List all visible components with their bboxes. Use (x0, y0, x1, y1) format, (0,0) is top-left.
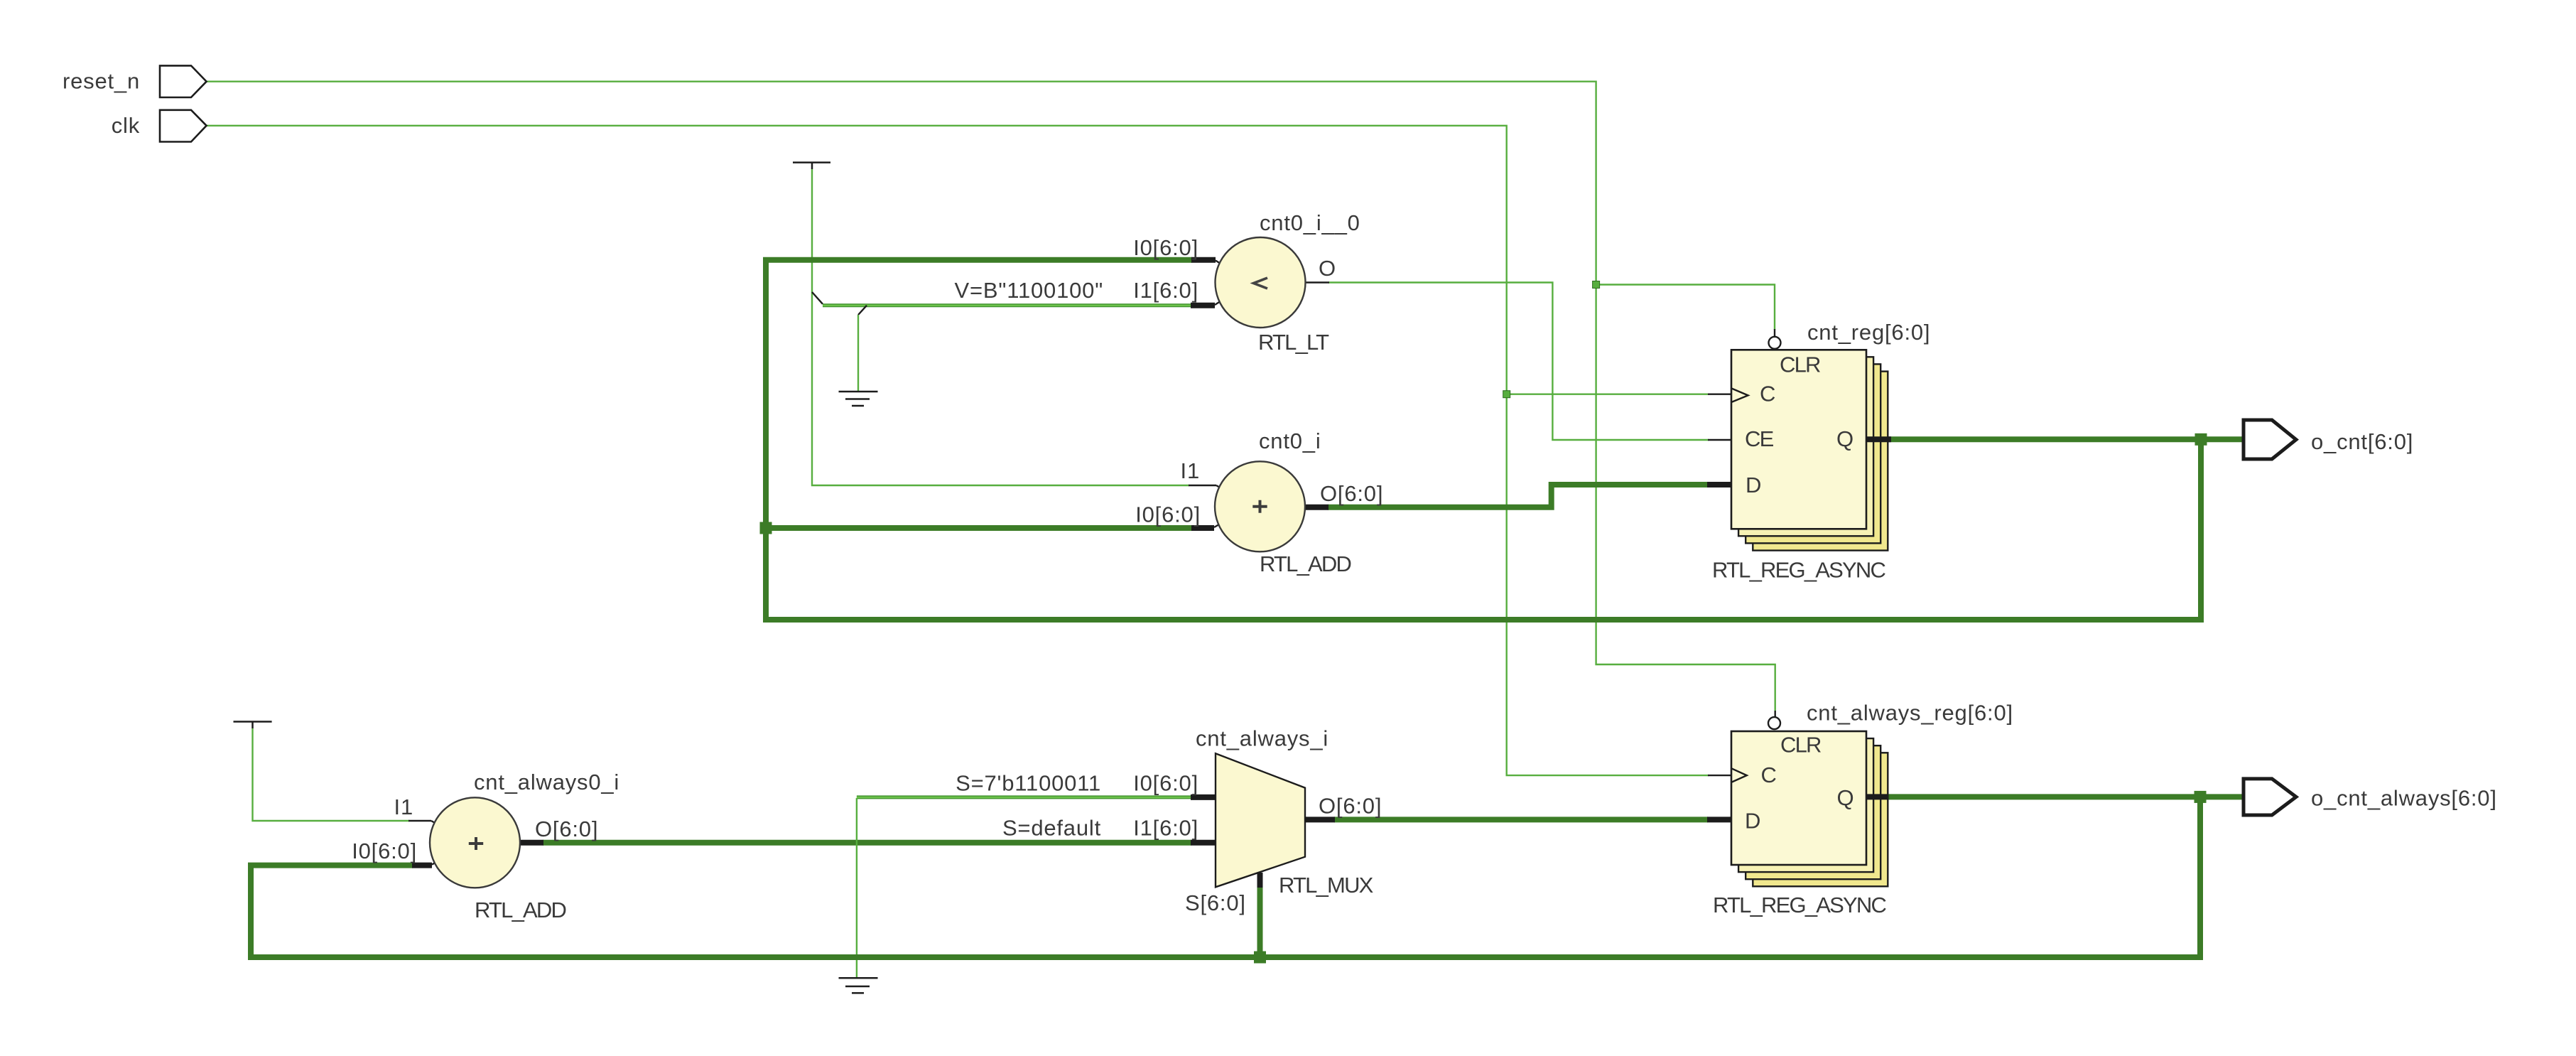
wire black pin stub over stack from cnt_always_reg Q (1866, 794, 1888, 799)
svg-text:cnt0_i: cnt0_i (1259, 429, 1321, 453)
wire cnt feedback thick net: Q to o_cnt and around to RTL_LT I0 (766, 260, 2201, 620)
wire diagonal tap to ground (858, 306, 867, 315)
svg-text:D: D (1746, 473, 1762, 497)
svg-text:Q: Q (1837, 785, 1855, 810)
svg-text:V=B"1100100": V=B"1100100" (955, 278, 1103, 303)
svg-text:cnt0_i__0: cnt0_i__0 (1260, 210, 1360, 235)
svg-text:I1: I1 (394, 794, 413, 819)
node reset junction (1593, 281, 1600, 289)
svg-text:O: O (1319, 256, 1336, 281)
wire black pin stub RTL_LT O (1306, 281, 1329, 283)
register RTL_REG_ASYNC cnt_reg[6:0] (1712, 320, 1930, 583)
svg-text:o_cnt[6:0]: o_cnt[6:0] (2311, 429, 2413, 454)
wire ground lead (857, 315, 859, 392)
wire RTL_LT output O to cnt_reg CE (1328, 283, 1709, 441)
svg-text:O[6:0]: O[6:0] (1319, 794, 1382, 819)
wire cnt0_i O to cnt_reg D (thick with jog) (1328, 485, 1708, 507)
wire black pin stub into cnt_reg CE (1708, 439, 1731, 441)
wire black pin stub into RTL_LT I0 (1191, 257, 1216, 263)
wire black pin stub from cnt0_i O (1305, 505, 1328, 510)
svg-text:O[6:0]: O[6:0] (1320, 481, 1383, 506)
node junction o_cnt_always (2195, 791, 2207, 803)
svg-text:D: D (1745, 809, 1761, 834)
node junction mux S on feedback (1254, 952, 1266, 964)
wire constant bus V=B"1100100" into RTL_LT I1 (hatched) (823, 303, 1191, 307)
wire black lead into cnt_reg CLR bubble (1774, 329, 1775, 336)
wire black pin stub from cnt_always_reg Q (1866, 794, 1888, 799)
wire Q output of cnt_reg to o_cnt port (1888, 436, 2244, 442)
power T-bar top (constant ones) (793, 163, 830, 169)
svg-text:CLR: CLR (1780, 352, 1820, 377)
wire black pin stub from cnt_reg Q (1866, 436, 1891, 442)
wire black pin stub into cnt_always_reg D (1707, 817, 1731, 822)
svg-text:RTL_ADD: RTL_ADD (475, 898, 566, 922)
wire black pin stub RTL_MUX S (1257, 873, 1263, 888)
svg-text:I1[6:0]: I1[6:0] (1133, 278, 1198, 303)
wire black pin stub into RTL_LT I1 (1191, 303, 1215, 308)
wire black pin stub into cnt_always0_i I1 (408, 820, 431, 821)
svg-text:cnt_always_i: cnt_always_i (1196, 726, 1328, 751)
svg-text:I1: I1 (1181, 458, 1200, 483)
svg-text:O[6:0]: O[6:0] (535, 817, 598, 841)
wire black pin stub over stack from cnt_reg Q (1866, 436, 1888, 442)
wire black pin stub into RTL_MUX I0 (1191, 794, 1216, 800)
svg-text:RTL_LT: RTL_LT (1258, 330, 1329, 355)
wire cnt_always0_i O to RTL_MUX I1 (543, 840, 1191, 846)
svg-text:S=default: S=default (1002, 816, 1101, 841)
wire black lead into cnt_always_reg CLR bubble (1774, 711, 1775, 717)
svg-text:I1[6:0]: I1[6:0] (1133, 816, 1198, 841)
svg-text:Q: Q (1836, 426, 1854, 451)
svg-text:clk: clk (112, 113, 140, 138)
svg-text:C: C (1761, 763, 1777, 787)
comparator RTL_LT cnt0_i__0 (955, 210, 1360, 355)
wire constant-one net into cnt_always0_i I1 (253, 728, 410, 821)
wire black pin stub into RTL_MUX I1 (1191, 840, 1216, 846)
wire RTL_MUX S select vertical (1257, 887, 1263, 957)
output port o_cnt_always[6:0] (2244, 779, 2497, 815)
svg-text:reset_n: reset_n (63, 69, 140, 94)
wire reset_n net: port to vertical drop (207, 82, 1775, 711)
node junction feedback to adder I0 (760, 522, 772, 534)
wire constant vertical lead to ground GND2 (856, 798, 857, 978)
wire reset_n branch to cnt_reg CLR bubble (1596, 285, 1775, 330)
ground GND2 (839, 978, 878, 993)
svg-text:RTL_MUX: RTL_MUX (1279, 873, 1374, 898)
svg-text:CE: CE (1745, 426, 1774, 451)
adder RTL_ADD cnt_always0_i (352, 770, 619, 922)
svg-text:o_cnt_always[6:0]: o_cnt_always[6:0] (2311, 786, 2497, 811)
wire constant S=7'b1100011 into RTL_MUX I0 (hatched) (857, 795, 1191, 799)
svg-text:cnt_reg[6:0]: cnt_reg[6:0] (1807, 320, 1930, 345)
svg-text:I0[6:0]: I0[6:0] (1133, 771, 1198, 796)
wire clk branch to cnt_reg C (1507, 394, 1709, 395)
wire black pin stub into cnt_always0_i I0 (412, 863, 432, 868)
wire RTL_MUX O to cnt_always_reg D (1334, 817, 1708, 822)
node clk junction (1503, 391, 1510, 398)
svg-text:I0[6:0]: I0[6:0] (352, 839, 417, 863)
input port clk (112, 110, 207, 142)
svg-text:cnt_always_reg[6:0]: cnt_always_reg[6:0] (1807, 701, 2013, 726)
svg-text:RTL_REG_ASYNC: RTL_REG_ASYNC (1712, 558, 1885, 583)
node junction o_cnt (2195, 433, 2207, 446)
wire clk black pin stub into cnt_reg C (1708, 394, 1731, 395)
wire branch into cnt0_i I0 (766, 525, 1192, 531)
svg-text:I0[6:0]: I0[6:0] (1135, 502, 1201, 527)
multiplexer RTL_MUX cnt_always_i (956, 726, 1382, 916)
svg-text:I0[6:0]: I0[6:0] (1133, 235, 1198, 260)
wire diagonal tap to constant V=B"1100100" (812, 292, 823, 304)
wire black pin stub into cnt0_i I1 (1189, 485, 1216, 486)
wire always feedback thick net: Q to o_cnt_always and around to cnt_always0_i I0 (251, 797, 2200, 957)
svg-text:S[6:0]: S[6:0] (1185, 890, 1246, 915)
wire Q output of cnt_always_reg to o_cnt_always port (1888, 794, 2244, 799)
wire constant-one vertical net down to RTL_ADD I1 (812, 169, 1189, 485)
svg-text:CLR: CLR (1780, 733, 1821, 758)
wire clk black pin stub into cnt_always_reg C (1708, 775, 1731, 776)
wire clk net: port to bottom register C (207, 126, 1709, 775)
svg-text:RTL_REG_ASYNC: RTL_REG_ASYNC (1713, 893, 1886, 917)
power T-bar bottom-left (constant one) (234, 722, 272, 729)
svg-text:RTL_ADD: RTL_ADD (1260, 551, 1351, 576)
wire black pin stub into cnt_reg D (1707, 482, 1731, 487)
input port reset_n (63, 65, 207, 97)
svg-text:cnt_always0_i: cnt_always0_i (474, 770, 619, 794)
register RTL_REG_ASYNC cnt_always_reg[6:0] (1713, 701, 2013, 918)
output port o_cnt[6:0] (2244, 420, 2413, 459)
ground GND1 (839, 392, 878, 406)
wire black pin stub from cnt_always0_i O (520, 840, 544, 846)
svg-text:S=7'b1100011: S=7'b1100011 (956, 771, 1101, 796)
wire black pin stub from RTL_MUX O (1305, 817, 1335, 822)
svg-text:C: C (1760, 382, 1776, 406)
adder RTL_ADD cnt0_i (1135, 429, 1383, 576)
wire black pin stub into cnt0_i I0 (1191, 525, 1214, 531)
